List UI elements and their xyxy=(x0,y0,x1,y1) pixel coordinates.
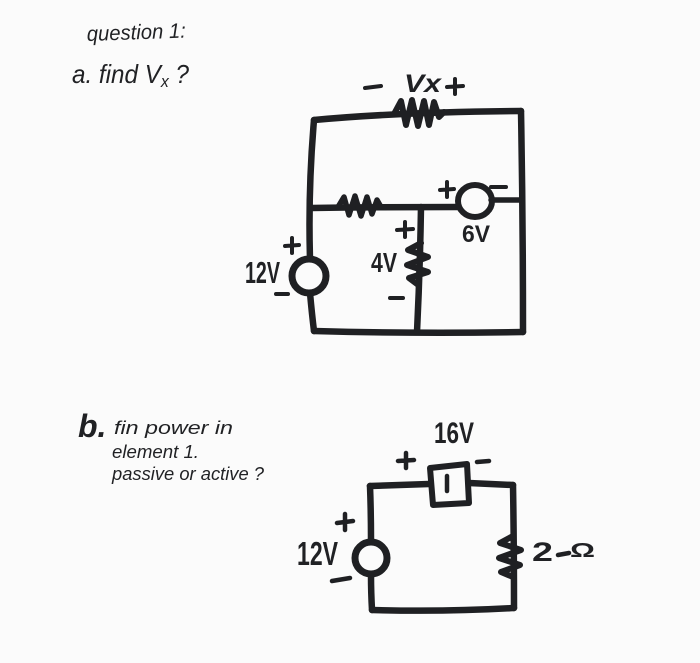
svg-text:fin power in: fin power in xyxy=(114,418,233,438)
svg-text:passive or active ?: passive or active ? xyxy=(111,464,264,484)
svg-text:16V: 16V xyxy=(434,417,474,450)
svg-text:12V: 12V xyxy=(297,535,338,572)
svg-text:2: 2 xyxy=(532,537,553,567)
svg-text:6V: 6V xyxy=(462,221,490,248)
svg-text:Vx: Vx xyxy=(404,70,442,98)
svg-text:12V: 12V xyxy=(245,255,280,290)
svg-text:question 1:: question 1: xyxy=(86,20,186,46)
svg-text:b.: b. xyxy=(78,408,106,444)
svg-text:4V: 4V xyxy=(371,247,397,278)
svg-text:element 1.: element 1. xyxy=(112,442,199,462)
svg-text:a. find Vx ?: a. find Vx ? xyxy=(72,59,189,91)
svg-text:Ω: Ω xyxy=(570,540,595,562)
